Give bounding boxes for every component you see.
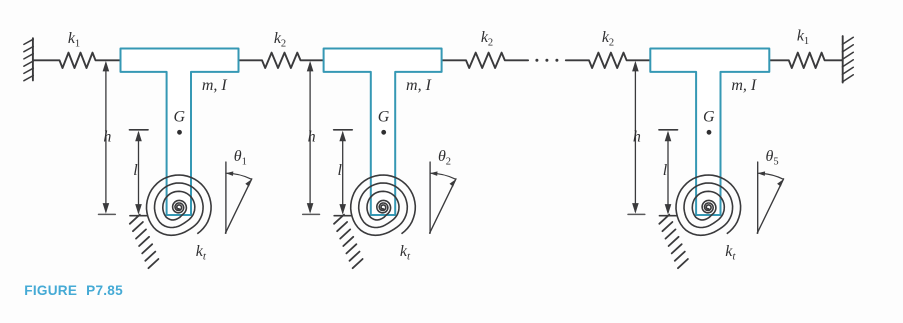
svg-text:kt: kt <box>400 243 411 263</box>
svg-text:G: G <box>703 109 715 126</box>
dimension line l (unit 1) <box>130 130 149 216</box>
T-shaped rigid body m,I (unit 3) <box>650 49 769 216</box>
dimension line l (unit 2) <box>334 130 353 216</box>
center of mass dot G (unit 1) <box>177 130 182 135</box>
angle indicator theta (unit 3) <box>757 162 783 233</box>
spring k1 (right) <box>769 53 842 68</box>
svg-text:m, I: m, I <box>406 77 432 94</box>
angle indicator theta (unit 1) <box>225 162 251 233</box>
dimension line h (unit 1) <box>99 61 116 215</box>
ground hatching under spiral (unit 3) <box>659 215 688 269</box>
dimension line l (unit 3) <box>659 130 678 216</box>
svg-text:k2: k2 <box>602 29 614 49</box>
ellipsis dots (continuation) <box>535 59 558 62</box>
svg-text:k1: k1 <box>68 30 80 50</box>
ground hatching under spiral (unit 1) <box>130 215 159 269</box>
left wall anchor <box>24 38 33 80</box>
svg-text:k1: k1 <box>797 28 809 48</box>
center of mass dot G (unit 2) <box>381 130 386 135</box>
center of mass dot G (unit 3) <box>707 130 712 135</box>
svg-text:l: l <box>133 162 138 179</box>
svg-text:m, I: m, I <box>731 77 757 94</box>
torsional spring k_t spiral (unit 1) <box>147 175 212 235</box>
angle indicator theta (unit 2) <box>430 162 456 233</box>
svg-text:G: G <box>174 109 186 126</box>
spring k2 (left of unit3) <box>566 53 651 68</box>
svg-text:G: G <box>378 109 390 126</box>
svg-text:FIGUREP7.85: FIGUREP7.85 <box>24 283 123 298</box>
svg-text:k2: k2 <box>481 29 493 49</box>
svg-text:θ5: θ5 <box>766 148 779 168</box>
svg-text:m, I: m, I <box>202 77 228 94</box>
spring k1 (left) <box>33 53 121 68</box>
svg-text:h: h <box>308 129 316 146</box>
svg-text:k2: k2 <box>274 30 286 50</box>
svg-text:l: l <box>337 162 342 179</box>
dimension line h (unit 2) <box>303 61 320 215</box>
spring k2 (right of unit2) <box>442 53 528 68</box>
right wall anchor <box>842 36 853 82</box>
T-shaped rigid body m,I (unit 1) <box>121 49 239 216</box>
svg-text:h: h <box>103 129 111 146</box>
torsional spring k_t spiral (unit 3) <box>676 175 741 235</box>
spring k2 (between unit1 and unit2) <box>239 53 324 68</box>
svg-text:kt: kt <box>196 243 207 263</box>
svg-text:kt: kt <box>725 243 736 263</box>
svg-text:h: h <box>633 129 641 146</box>
dimension line h (unit 3) <box>628 61 645 215</box>
svg-text:θ1: θ1 <box>234 148 247 168</box>
torsional spring k_t spiral (unit 2) <box>351 175 416 235</box>
svg-text:l: l <box>663 162 668 179</box>
svg-text:θ2: θ2 <box>438 148 451 168</box>
ground hatching under spiral (unit 2) <box>334 215 363 269</box>
T-shaped rigid body m,I (unit 2) <box>324 49 442 216</box>
